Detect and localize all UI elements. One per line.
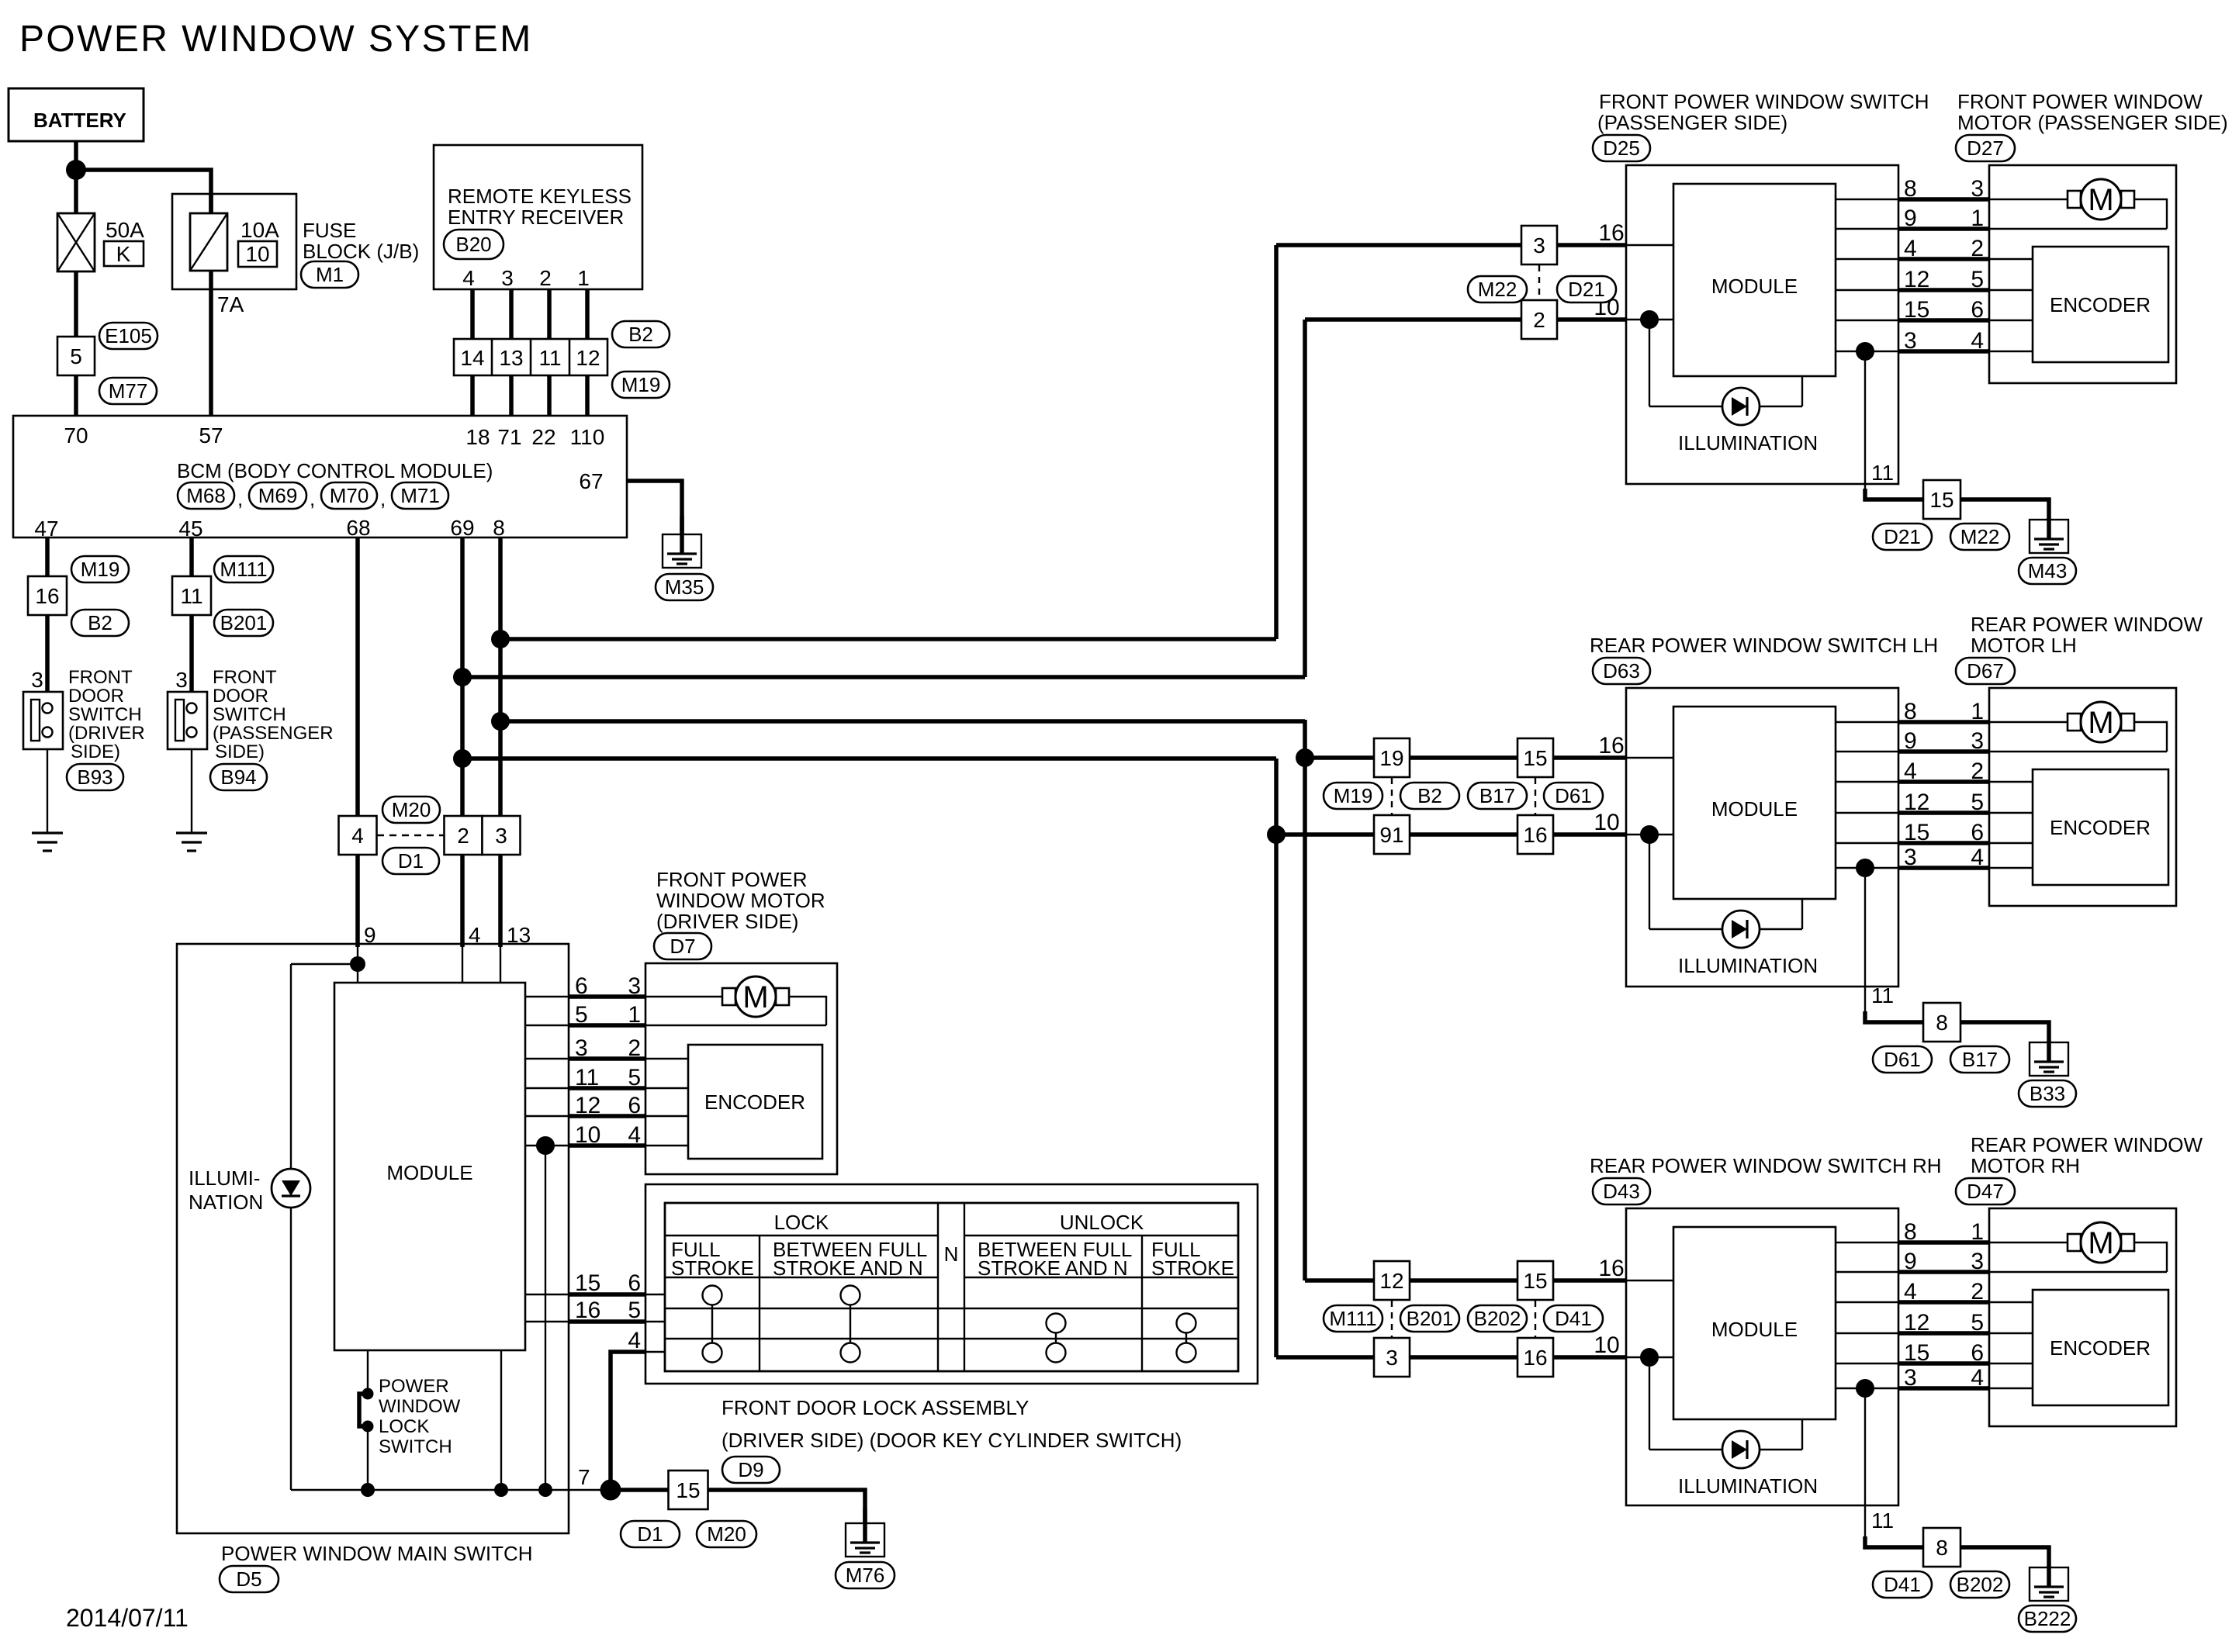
main switch row pin 12/6 wire	[525, 1093, 688, 1118]
connector M68	[178, 482, 234, 509]
svg-text:BCM (BODY CONTROL MODULE): BCM (BODY CONTROL MODULE)	[177, 459, 493, 482]
front passenger connector 3 on 16 row	[1521, 226, 1557, 264]
connector 3	[483, 816, 521, 855]
vertical wire to rear 10 rows	[1274, 759, 1279, 1357]
svg-text:B202: B202	[1957, 1573, 2004, 1596]
wire row 10/4 to bottom rail	[545, 1146, 546, 1490]
front passenger pin 11 wire	[1865, 351, 1923, 499]
front power window motor driver header	[656, 868, 825, 933]
rear RH connector 12 on 16 row	[1374, 1261, 1410, 1300]
table label N	[944, 1242, 959, 1266]
front passenger motor connector D27	[1956, 135, 2015, 161]
svg-text:M22: M22	[1478, 278, 1517, 301]
svg-text:ENCODER: ENCODER	[2050, 293, 2151, 316]
rear LH dashed connector link	[1391, 778, 1393, 814]
svg-text:SWITCH: SWITCH	[68, 704, 142, 725]
front passenger connector 15 to ground	[1923, 480, 1960, 519]
front passenger row pin 15/6 wire	[1836, 297, 2033, 323]
svg-text:(DRIVER SIDE) (DOOR KEY CYLIND: (DRIVER SIDE) (DOOR KEY CYLINDER SWITCH)	[722, 1429, 1182, 1452]
svg-text:12: 12	[1379, 1269, 1403, 1293]
svg-text:(DRIVER: (DRIVER	[68, 723, 145, 744]
svg-text:D41: D41	[1884, 1573, 1921, 1596]
svg-text:B33: B33	[2030, 1082, 2065, 1105]
svg-text:16: 16	[1598, 220, 1624, 246]
wire BCM pin 8 down to connector 3	[498, 537, 503, 816]
front passenger connector D21	[1873, 524, 1932, 550]
svg-text:D1: D1	[398, 849, 424, 873]
svg-text:67: 67	[579, 469, 603, 493]
table contact column between unlock	[1047, 1314, 1066, 1363]
front passenger switch connector D25	[1593, 135, 1650, 161]
front passenger ground wire	[1960, 499, 2049, 521]
svg-text:STROKE: STROKE	[671, 1256, 754, 1280]
svg-text:45: 45	[178, 517, 202, 541]
svg-text:12: 12	[1904, 790, 1929, 815]
svg-text:5: 5	[1971, 267, 1984, 292]
rear LH connector B17	[1950, 1046, 2009, 1073]
connector B2	[612, 321, 670, 347]
main switch illumination diode	[272, 1169, 310, 1208]
svg-text:E105: E105	[105, 324, 152, 347]
svg-text:DOOR: DOOR	[213, 686, 268, 707]
connector D7	[654, 933, 711, 959]
rear RH switch outer box	[1626, 1208, 1898, 1505]
table label UNLOCK	[1060, 1211, 1144, 1234]
svg-text:11: 11	[180, 584, 202, 608]
rear LH dashed connector link	[1535, 778, 1536, 814]
rear LH connector 91 on 10 row	[1374, 815, 1410, 854]
svg-text:ILLUMINATION: ILLUMINATION	[1678, 1474, 1818, 1498]
svg-text:18: 18	[465, 425, 490, 449]
svg-text:D25: D25	[1603, 137, 1640, 160]
ground M76	[836, 1509, 895, 1588]
rear RH illumination diode	[1722, 1431, 1760, 1468]
rear LH ENCODER box	[2033, 769, 2168, 885]
ground M35	[656, 516, 713, 600]
rear LH junction row 3/4	[1856, 859, 1874, 877]
svg-text:POWER WINDOW SYSTEM: POWER WINDOW SYSTEM	[19, 19, 533, 60]
rear LH connector 8 to ground	[1923, 1003, 1960, 1042]
svg-text:M70: M70	[330, 484, 369, 507]
svg-text:5: 5	[575, 1002, 588, 1028]
svg-text:9: 9	[1904, 728, 1917, 754]
connector B94	[210, 764, 267, 790]
front passenger switch MODULE box	[1673, 184, 1836, 376]
svg-text:D27: D27	[1967, 137, 2004, 160]
svg-text:4: 4	[1971, 328, 1984, 354]
rear LH pin 16 label	[1598, 733, 1624, 759]
svg-text:M: M	[2088, 706, 2113, 740]
rear RH connector 16 on 10 row	[1517, 1338, 1553, 1377]
svg-text:6: 6	[1971, 1340, 1984, 1366]
connector D9	[722, 1457, 780, 1483]
connector 4 M20 D1	[339, 797, 445, 874]
junction rear LH 10	[1267, 825, 1286, 844]
svg-text:11: 11	[1871, 461, 1894, 485]
svg-text:6: 6	[1971, 297, 1984, 323]
svg-text:15: 15	[1904, 1340, 1929, 1366]
svg-text:16: 16	[1523, 823, 1547, 847]
svg-text:47: 47	[34, 517, 58, 541]
rear RH connector D41	[1873, 1571, 1932, 1598]
junction module rail	[494, 1483, 508, 1497]
main switch row pin 16/5 wire	[525, 1298, 665, 1323]
svg-text:M: M	[2088, 183, 2113, 217]
rear RH wire 10 row	[1276, 1355, 1673, 1360]
svg-text:4: 4	[628, 1122, 641, 1148]
junction pin69 bus2	[453, 668, 472, 686]
svg-text:50A: 50A	[106, 218, 144, 242]
wire receiver pin4 to connector 14	[470, 289, 475, 339]
svg-text:SIDE): SIDE)	[215, 741, 265, 762]
main switch pin 4	[469, 923, 481, 947]
bus wire 4 to rear switches 10	[462, 756, 1276, 761]
svg-text:10: 10	[245, 242, 269, 266]
svg-text:8: 8	[1904, 1219, 1917, 1245]
front passenger illumination diode	[1722, 388, 1760, 425]
rear LH motor header	[1971, 613, 2203, 657]
main switch MODULE box	[334, 983, 525, 1350]
svg-text:UNLOCK: UNLOCK	[1060, 1211, 1144, 1234]
svg-text:15: 15	[1929, 488, 1954, 512]
main switch row pin 4 wire	[611, 1328, 665, 1490]
svg-text:M19: M19	[621, 373, 661, 396]
wire BCM pin 68 down to connector 4	[355, 537, 360, 816]
svg-text:16: 16	[35, 584, 59, 608]
battery	[9, 88, 144, 141]
front door lock assembly outer box	[645, 1184, 1258, 1384]
svg-text:B93: B93	[77, 766, 112, 789]
rear LH wire 10 row	[1276, 832, 1673, 837]
svg-text:8: 8	[1936, 1011, 1948, 1035]
svg-text:N: N	[944, 1242, 959, 1266]
front passenger junction 10 row	[1640, 310, 1659, 329]
rear LH wire 16 row	[1305, 755, 1673, 760]
wire BCM pin 45 to connector 11	[189, 537, 194, 576]
svg-text:8: 8	[493, 516, 505, 540]
junction rear LH 16	[1296, 748, 1314, 767]
svg-text:9: 9	[364, 923, 376, 947]
driver motor outer box	[645, 963, 837, 1174]
rear RH connector B201	[1400, 1305, 1459, 1332]
svg-text:(PASSENGER: (PASSENGER	[213, 723, 334, 744]
wire battery to fusible link	[74, 141, 78, 213]
rear LH illumination diode	[1722, 911, 1760, 948]
rear RH ENCODER box	[2033, 1290, 2168, 1405]
svg-text:POWER WINDOW MAIN SWITCH: POWER WINDOW MAIN SWITCH	[221, 1542, 533, 1565]
svg-text:(DRIVER SIDE): (DRIVER SIDE)	[656, 910, 798, 933]
svg-text:M19: M19	[81, 558, 120, 581]
svg-text:FRONT POWER WINDOW: FRONT POWER WINDOW	[1957, 90, 2203, 113]
power window lock switch	[359, 1388, 374, 1433]
junction row4 rail	[538, 1483, 552, 1497]
front door switch passenger side	[168, 692, 207, 749]
junction pin 7 node	[600, 1480, 621, 1501]
rear LH switch MODULE box	[1673, 707, 1836, 899]
svg-text:MODULE: MODULE	[1711, 797, 1798, 821]
rear LH connector 19 on 16 row	[1374, 738, 1410, 777]
svg-text:15: 15	[1904, 297, 1929, 323]
front passenger row pin 12/5 wire	[1836, 267, 2033, 292]
svg-text:REAR POWER WINDOW: REAR POWER WINDOW	[1971, 613, 2203, 636]
connector 15 D1 M20	[621, 1471, 756, 1547]
svg-text:MOTOR RH: MOTOR RH	[1971, 1154, 2080, 1177]
svg-text:11: 11	[575, 1065, 599, 1090]
svg-text:D5: D5	[236, 1567, 261, 1591]
BCM pin 71	[497, 425, 521, 449]
wire connector 16 to door switch driver	[45, 615, 50, 692]
rear LH connector 15 on 16 row	[1517, 738, 1553, 777]
svg-text:FRONT POWER WINDOW SWITCH: FRONT POWER WINDOW SWITCH	[1599, 90, 1929, 113]
wire receiver pin3 to connector 13	[509, 289, 514, 339]
table contact column full stroke lock	[703, 1286, 722, 1363]
svg-text:WINDOW: WINDOW	[379, 1396, 461, 1417]
svg-text:,: ,	[310, 487, 315, 510]
svg-text:12: 12	[1904, 267, 1929, 292]
wire connector 11 to door switch passenger	[189, 615, 194, 692]
vertical wire to front passenger 16	[1274, 245, 1279, 639]
wire fuse to BCM pin 57	[209, 271, 213, 416]
main switch row pin 5/1 wire	[525, 1002, 826, 1028]
svg-text:ENCODER: ENCODER	[704, 1090, 805, 1114]
wire receiver pin1 to connector 12	[585, 289, 590, 339]
wire receiver pin2 to connector 11	[547, 289, 552, 339]
wire branch to fuse block	[76, 170, 211, 213]
rear LH ground wire	[1960, 1022, 2049, 1044]
rear RH ILLUMINATION label	[1678, 1474, 1818, 1498]
BCM (body control module) box	[13, 416, 627, 537]
rear RH pin 11 wire	[1865, 1388, 1923, 1547]
svg-text:16: 16	[575, 1298, 600, 1323]
vertical wire to rear 16 rows	[1303, 720, 1307, 1280]
svg-text:M: M	[742, 980, 768, 1014]
table label FULL STROKE right	[1151, 1238, 1234, 1280]
svg-text:M69: M69	[258, 484, 298, 507]
rear RH motor M loop wire	[2131, 1242, 2167, 1272]
junction main switch illumination	[350, 956, 365, 972]
svg-text:FUSE: FUSE	[303, 219, 356, 242]
driver motor M loop wire	[789, 997, 826, 1025]
rear LH connector B17	[1468, 783, 1527, 809]
power window lock switch label	[379, 1376, 461, 1457]
svg-text:110: 110	[570, 425, 605, 449]
svg-text:1: 1	[1971, 206, 1984, 231]
svg-text:3: 3	[1971, 1249, 1984, 1274]
svg-text:REAR POWER WINDOW SWITCH LH: REAR POWER WINDOW SWITCH LH	[1590, 634, 1938, 657]
bus wire 2 to front passenger switch 10	[462, 675, 1305, 679]
svg-text:71: 71	[497, 425, 521, 449]
front door switch passenger label	[213, 667, 334, 762]
svg-text:M1: M1	[316, 263, 344, 286]
svg-text:SWITCH: SWITCH	[379, 1436, 452, 1457]
svg-text:4: 4	[1971, 845, 1984, 870]
junction lock switch rail	[361, 1483, 375, 1497]
power window main switch outer box	[177, 944, 569, 1533]
svg-text:57: 57	[199, 423, 223, 448]
connector D5	[220, 1566, 279, 1592]
svg-text:B20: B20	[455, 233, 491, 256]
svg-text:6: 6	[628, 1270, 641, 1296]
svg-text:91: 91	[1379, 823, 1403, 847]
wire BCM pin 69 down to connector 2	[460, 537, 465, 816]
wire connector 15 to ground M76	[708, 1490, 865, 1525]
front passenger connector M22	[1950, 524, 2009, 550]
svg-text:13: 13	[507, 923, 531, 947]
svg-text:3: 3	[575, 1035, 588, 1061]
svg-text:1: 1	[1971, 699, 1984, 724]
fuse block label	[303, 219, 419, 263]
connector 16 M19 B2	[28, 556, 129, 636]
svg-text:1: 1	[1971, 1219, 1984, 1245]
front passenger row pin 8/3 wire	[1836, 176, 2070, 202]
svg-text:D47: D47	[1967, 1180, 2004, 1203]
BCM pin 8	[493, 516, 505, 540]
svg-text:12: 12	[576, 346, 600, 370]
rear RH switch connector D43	[1593, 1178, 1650, 1204]
svg-text:NATION: NATION	[189, 1191, 263, 1214]
svg-text:(PASSENGER SIDE): (PASSENGER SIDE)	[1597, 111, 1787, 134]
svg-text:D21: D21	[1568, 278, 1605, 301]
svg-text:M43: M43	[2028, 559, 2068, 582]
bus wire 1 to front passenger switch 16	[500, 637, 1276, 641]
connector M71	[392, 482, 448, 509]
wire module bottom to rail	[500, 1350, 502, 1490]
rear RH pin 10 label	[1594, 1332, 1619, 1358]
ground B93 chain	[32, 833, 63, 851]
rear LH ILLUMINATION label	[1678, 954, 1818, 977]
svg-text:2: 2	[457, 824, 469, 848]
rear RH row pin 8/1 wire	[1836, 1219, 2070, 1245]
svg-text:B2: B2	[628, 323, 653, 346]
rear RH motor M symbol	[2068, 1222, 2134, 1263]
BCM pin 45	[178, 517, 202, 541]
svg-text:4: 4	[469, 923, 481, 947]
front passenger connector D21	[1557, 276, 1616, 302]
svg-text:2: 2	[628, 1035, 641, 1061]
rear RH connector 8 to ground	[1923, 1528, 1960, 1567]
svg-text:10A: 10A	[241, 218, 279, 242]
svg-text:B2: B2	[88, 611, 112, 634]
connector B93	[67, 764, 123, 790]
rear LH switch outer box	[1626, 688, 1898, 987]
rear RH switch header	[1590, 1154, 1942, 1177]
svg-text:FRONT: FRONT	[213, 667, 277, 688]
wire connector 14 to BCM pin 18	[470, 375, 475, 416]
wire connector 13 to BCM pin 71	[509, 375, 514, 416]
svg-text:13: 13	[499, 346, 523, 370]
rear LH motor M symbol	[2068, 702, 2134, 742]
svg-text:D43: D43	[1603, 1180, 1640, 1203]
svg-text:3: 3	[1971, 176, 1984, 202]
svg-text:M111: M111	[220, 558, 267, 581]
connector 2	[445, 816, 483, 855]
front passenger illumination wire	[1649, 320, 1802, 406]
svg-text:5: 5	[628, 1065, 641, 1090]
rear LH switch connector D63	[1593, 658, 1650, 684]
wire connector 4 to main switch pin 9	[355, 855, 360, 983]
junction pin69 bus4	[453, 749, 472, 768]
driver motor M symbol	[722, 976, 789, 1017]
table label BETWEEN FULL STROKE AND N lock	[773, 1238, 927, 1280]
BCM pin 70	[64, 423, 88, 448]
svg-text:2: 2	[1971, 1279, 1984, 1305]
svg-text:3: 3	[1904, 845, 1917, 870]
junction battery branch	[66, 160, 86, 180]
rear RH motor outer box	[1989, 1208, 2176, 1426]
connector M19	[612, 372, 670, 398]
rear LH connector 16 on 10 row	[1517, 815, 1553, 854]
svg-text:,: ,	[237, 487, 243, 510]
svg-text:MODULE: MODULE	[1711, 1318, 1798, 1341]
front passenger ground M43	[2019, 518, 2076, 584]
svg-text:B201: B201	[220, 611, 268, 634]
rear RH ground B222	[2019, 1566, 2076, 1632]
rear LH row pin 8/1 wire	[1836, 699, 2070, 724]
ILLUMI-NATION label	[189, 1166, 263, 1214]
front passenger dashed connector link	[1538, 265, 1540, 299]
svg-text:M22: M22	[1960, 525, 2000, 548]
front passenger motor outer box	[1989, 165, 2176, 383]
junction pin8 bus3	[491, 712, 510, 731]
connector 5 E105 M77	[57, 323, 157, 404]
svg-text:STROKE AND N: STROKE AND N	[978, 1256, 1128, 1280]
front passenger ENCODER box	[2033, 247, 2168, 362]
svg-text:16: 16	[1598, 733, 1624, 759]
main switch row pin 3/2 wire	[525, 1035, 688, 1061]
fuse block (J/B) box M1	[172, 194, 296, 289]
front passenger motor M symbol	[2068, 179, 2134, 219]
svg-text:D63: D63	[1603, 659, 1640, 683]
svg-text:LOCK: LOCK	[774, 1211, 829, 1234]
svg-text:69: 69	[450, 516, 474, 540]
svg-text:B94: B94	[220, 766, 256, 789]
front passenger wire 10 row	[1305, 317, 1673, 322]
svg-text:D61: D61	[1884, 1048, 1921, 1071]
svg-text:16: 16	[1523, 1346, 1547, 1370]
svg-text:B2: B2	[1417, 784, 1442, 807]
svg-text:4: 4	[1904, 1279, 1917, 1305]
svg-text:1: 1	[628, 1002, 641, 1028]
rear RH connector 15 on 16 row	[1517, 1261, 1553, 1300]
svg-text:MODULE: MODULE	[386, 1161, 472, 1184]
fusible link 50A K	[57, 213, 144, 271]
rear LH ground B33	[2019, 1041, 2076, 1107]
svg-text:M71: M71	[400, 484, 440, 507]
svg-text:1: 1	[577, 266, 590, 290]
rear RH connector B202	[1468, 1305, 1527, 1332]
wire fusible link to connector 5	[74, 271, 78, 337]
front passenger pin 10 label	[1594, 295, 1619, 320]
BCM pin 47	[34, 517, 58, 541]
svg-text:M77: M77	[109, 379, 148, 403]
svg-text:4: 4	[1904, 236, 1917, 261]
connector M69	[249, 482, 306, 509]
svg-text:4: 4	[628, 1328, 641, 1353]
svg-text:M111: M111	[1329, 1307, 1376, 1330]
rear RH row pin 4/2 wire	[1836, 1279, 2033, 1305]
main switch row pin 6/3 wire	[525, 973, 722, 999]
rear LH motor outer box	[1989, 688, 2176, 906]
svg-text:10: 10	[1594, 1332, 1619, 1358]
wire door switch driver to ground	[47, 749, 48, 833]
svg-text:SIDE): SIDE)	[71, 741, 120, 762]
svg-text:7: 7	[578, 1465, 590, 1489]
rear LH row pin 9/3 wire	[1836, 728, 2167, 754]
rear RH motor header	[1971, 1133, 2203, 1177]
svg-text:,: ,	[380, 487, 386, 510]
svg-text:D1: D1	[637, 1522, 663, 1546]
svg-text:15: 15	[575, 1270, 600, 1296]
